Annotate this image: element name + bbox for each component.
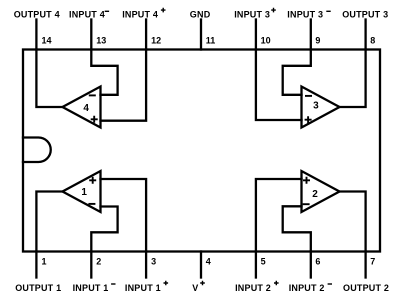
svg-text:9: 9	[315, 36, 320, 46]
svg-text:OUTPUT 2: OUTPUT 2	[343, 283, 389, 293]
svg-text:11: 11	[206, 36, 216, 46]
svg-text:4: 4	[206, 257, 211, 267]
svg-text:OUTPUT 4: OUTPUT 4	[14, 9, 60, 19]
svg-text:OUTPUT 3: OUTPUT 3	[342, 9, 388, 19]
svg-text:10: 10	[261, 36, 271, 46]
svg-text:INPUT 4: INPUT 4	[69, 9, 105, 19]
svg-text:12: 12	[151, 36, 161, 46]
svg-text:INPUT 1: INPUT 1	[73, 283, 109, 293]
svg-text:INPUT 2: INPUT 2	[235, 283, 271, 293]
svg-text:1: 1	[42, 257, 47, 267]
svg-text:4: 4	[83, 103, 89, 114]
svg-text:2: 2	[96, 257, 101, 267]
svg-text:INPUT 3: INPUT 3	[287, 9, 323, 19]
svg-text:GND: GND	[190, 9, 211, 19]
svg-text:INPUT 2: INPUT 2	[289, 283, 325, 293]
svg-text:13: 13	[96, 36, 106, 46]
svg-text:INPUT 3: INPUT 3	[234, 9, 270, 19]
svg-text:3: 3	[313, 101, 319, 112]
svg-text:5: 5	[261, 257, 266, 267]
svg-text:6: 6	[315, 257, 320, 267]
svg-text:8: 8	[370, 36, 375, 46]
svg-text:14: 14	[42, 36, 52, 46]
svg-text:INPUT 4: INPUT 4	[122, 9, 158, 19]
svg-text:OUTPUT 1: OUTPUT 1	[15, 283, 61, 293]
svg-text:INPUT 1: INPUT 1	[125, 283, 161, 293]
svg-text:3: 3	[151, 257, 156, 267]
svg-text:V: V	[192, 283, 198, 293]
svg-text:1: 1	[81, 187, 87, 198]
svg-text:7: 7	[370, 257, 375, 267]
svg-text:2: 2	[312, 189, 318, 200]
